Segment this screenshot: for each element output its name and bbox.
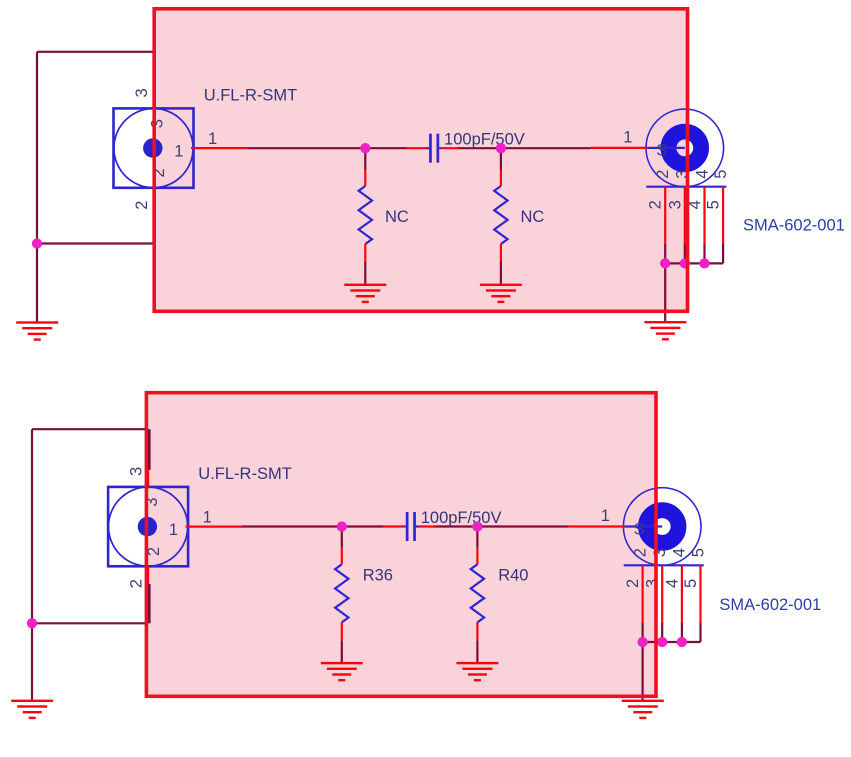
svg-text:3: 3: [149, 119, 167, 128]
svg-text:1: 1: [169, 521, 178, 539]
svg-text:R40: R40: [498, 566, 528, 584]
svg-text:R36: R36: [363, 566, 393, 584]
svg-text:3: 3: [128, 467, 146, 476]
svg-text:5: 5: [712, 170, 730, 179]
svg-text:1: 1: [208, 130, 217, 148]
svg-text:3: 3: [651, 548, 669, 557]
svg-text:1: 1: [203, 508, 212, 526]
svg-text:3: 3: [133, 88, 151, 97]
svg-text:U.FL-R-SMT: U.FL-R-SMT: [198, 465, 291, 483]
svg-text:1: 1: [623, 129, 632, 147]
svg-text:2: 2: [133, 201, 151, 210]
svg-text:4: 4: [663, 579, 681, 588]
svg-text:4: 4: [693, 170, 711, 179]
svg-text:2: 2: [128, 579, 146, 588]
svg-text:1: 1: [174, 143, 183, 161]
svg-text:SMA-602-001: SMA-602-001: [743, 217, 845, 235]
svg-text:S: S: [656, 142, 667, 160]
svg-text:1: 1: [601, 507, 610, 525]
svg-text:3: 3: [666, 200, 684, 209]
svg-text:NC: NC: [521, 208, 545, 226]
svg-text:3: 3: [644, 579, 662, 588]
svg-text:U.FL-R-SMT: U.FL-R-SMT: [204, 86, 298, 104]
svg-text:2: 2: [647, 200, 665, 209]
svg-text:NC: NC: [385, 208, 409, 226]
svg-text:SMA-602-001: SMA-602-001: [719, 596, 821, 614]
svg-text:2: 2: [654, 170, 672, 179]
svg-text:2: 2: [624, 579, 642, 588]
svg-text:5: 5: [689, 548, 707, 557]
svg-text:S: S: [634, 520, 645, 538]
svg-text:2: 2: [631, 548, 649, 557]
svg-text:5: 5: [682, 579, 700, 588]
svg-text:100pF/50V: 100pF/50V: [444, 131, 525, 149]
svg-text:5: 5: [705, 200, 723, 209]
svg-text:100pF/50V: 100pF/50V: [421, 509, 502, 527]
svg-text:4: 4: [671, 548, 689, 557]
